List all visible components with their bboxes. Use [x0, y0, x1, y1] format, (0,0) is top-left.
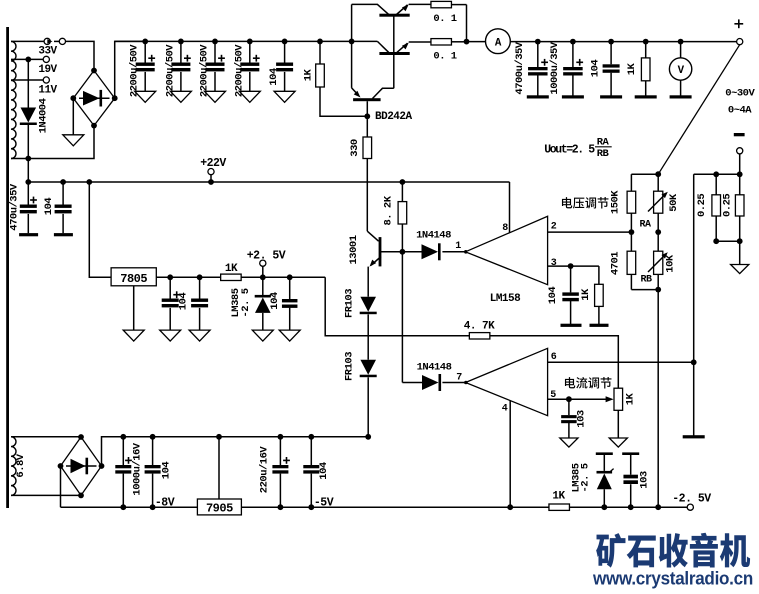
svg-text:+2. 5V: +2. 5V [247, 250, 286, 263]
svg-text:4: 4 [502, 404, 508, 415]
svg-text:330: 330 [349, 139, 361, 157]
svg-text:2200u/50V: 2200u/50V [129, 44, 141, 97]
svg-text:V: V [678, 65, 685, 77]
svg-text:0. 1: 0. 1 [433, 13, 456, 25]
svg-text:2200u/50V: 2200u/50V [164, 44, 176, 97]
svg-text:470u/35V: 470u/35V [9, 183, 21, 231]
svg-text:-8V: -8V [155, 497, 175, 510]
svg-text:A: A [495, 37, 502, 49]
svg-text:103: 103 [639, 471, 651, 489]
svg-text:1K: 1K [625, 393, 637, 406]
svg-text:3: 3 [551, 258, 557, 269]
svg-text:-5V: -5V [314, 497, 334, 510]
svg-text:104: 104 [178, 293, 190, 311]
svg-text:4701: 4701 [610, 252, 622, 275]
svg-text:104: 104 [318, 462, 330, 480]
svg-text:4. 7K: 4. 7K [464, 321, 495, 333]
svg-text:1K: 1K [626, 63, 638, 76]
svg-text:0~30V: 0~30V [725, 87, 755, 99]
svg-text:8. 2K: 8. 2K [383, 195, 395, 225]
svg-text:104: 104 [590, 60, 602, 78]
svg-text:0. 1: 0. 1 [433, 51, 456, 63]
svg-text:0~4A: 0~4A [728, 105, 752, 117]
svg-text:104: 104 [269, 292, 281, 310]
svg-text:2: 2 [551, 222, 557, 233]
svg-text:7805: 7805 [120, 272, 147, 286]
svg-text:2200u/50V: 2200u/50V [233, 44, 245, 97]
svg-text:1K: 1K [303, 69, 315, 82]
svg-text:1000u/16V: 1000u/16V [132, 442, 144, 495]
svg-text:1K: 1K [552, 491, 565, 503]
svg-text:11V: 11V [38, 85, 57, 97]
svg-text:0.25: 0.25 [722, 194, 734, 217]
svg-text:1000u/35V: 1000u/35V [549, 41, 561, 94]
svg-text:33V: 33V [38, 46, 57, 58]
svg-text:7: 7 [456, 373, 462, 384]
svg-text:6: 6 [551, 352, 557, 363]
svg-text:150K: 150K [610, 190, 622, 214]
svg-text:5: 5 [550, 390, 556, 401]
svg-text:7905: 7905 [206, 502, 233, 516]
svg-text:www.crystalradio.cn: www.crystalradio.cn [592, 568, 753, 589]
svg-text:50K: 50K [668, 193, 680, 212]
svg-text:+22V: +22V [200, 157, 226, 170]
svg-text:-2. 5: -2. 5 [240, 288, 252, 317]
svg-text:10K: 10K [665, 254, 677, 273]
svg-text:1: 1 [455, 241, 461, 252]
svg-text:LM158: LM158 [490, 293, 521, 305]
svg-text:RB: RB [597, 148, 610, 160]
svg-text:RB: RB [640, 275, 652, 286]
svg-text:1N4148: 1N4148 [416, 230, 451, 242]
svg-text:103: 103 [576, 410, 588, 428]
svg-text:FR103: FR103 [344, 289, 356, 318]
svg-text:104: 104 [161, 462, 173, 480]
svg-text:FR103: FR103 [344, 352, 356, 381]
svg-text:-2. 5V: -2. 5V [672, 493, 711, 506]
svg-text:13001: 13001 [348, 235, 360, 264]
svg-text:0.25: 0.25 [696, 194, 708, 217]
svg-text:6.8V: 6.8V [15, 453, 27, 477]
svg-text:-2. 5: -2. 5 [580, 463, 592, 492]
svg-text:Uout=2. 5: Uout=2. 5 [544, 143, 595, 156]
svg-text:2200u/50V: 2200u/50V [199, 44, 211, 97]
svg-text:1N4148: 1N4148 [417, 362, 452, 374]
svg-text:1K: 1K [580, 288, 592, 301]
svg-text:1N4004: 1N4004 [38, 98, 50, 133]
svg-text:BD242A: BD242A [375, 111, 413, 123]
svg-text:104: 104 [43, 198, 55, 216]
svg-text:1K: 1K [225, 263, 238, 275]
svg-text:8: 8 [502, 223, 508, 234]
svg-text:RA: RA [639, 220, 651, 231]
svg-text:4700u/35V: 4700u/35V [514, 41, 526, 94]
svg-text:104: 104 [547, 287, 559, 305]
svg-text:104: 104 [268, 68, 280, 86]
svg-text:19V: 19V [38, 64, 57, 76]
svg-text:220u/16V: 220u/16V [259, 446, 271, 494]
